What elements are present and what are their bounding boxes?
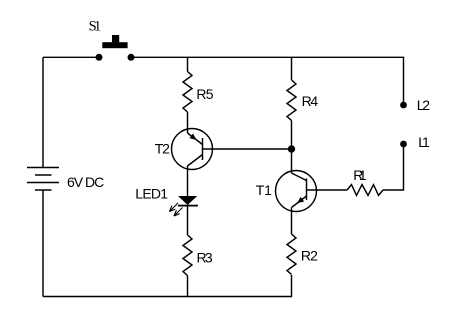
svg-text:R2: R2 [301, 247, 318, 263]
svg-text:S1: S1 [89, 19, 102, 35]
svg-text:6V DC: 6V DC [67, 174, 104, 190]
svg-text:R1: R1 [353, 167, 367, 183]
svg-text:T2: T2 [155, 141, 170, 157]
svg-text:L1: L1 [418, 134, 430, 150]
svg-text:R5: R5 [196, 86, 213, 102]
svg-text:LED1: LED1 [135, 186, 168, 202]
svg-text:R3: R3 [197, 250, 213, 266]
svg-text:T1: T1 [256, 182, 272, 198]
svg-text:L2: L2 [417, 97, 431, 113]
svg-text:R4: R4 [302, 93, 319, 109]
